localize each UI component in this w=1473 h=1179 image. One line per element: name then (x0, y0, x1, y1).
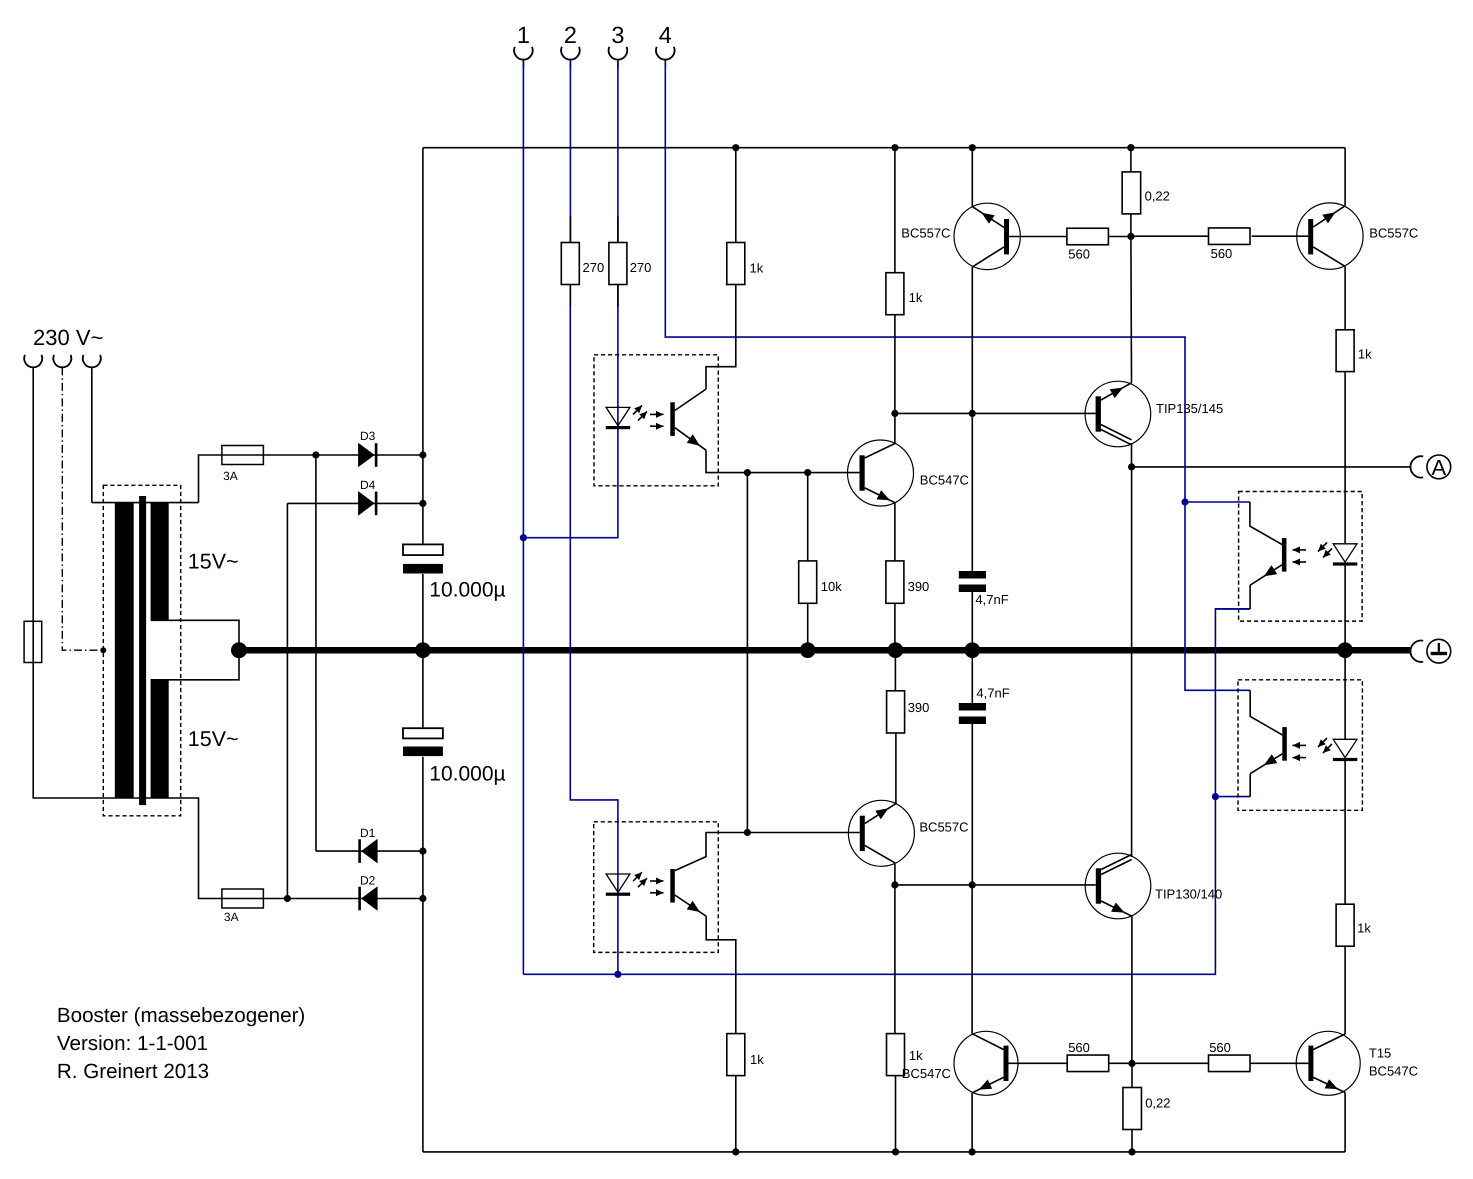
svg-text:BC547C: BC547C (902, 1066, 951, 1081)
svg-text:Version: 1-1-001: Version: 1-1-001 (57, 1032, 208, 1055)
svg-text:T15: T15 (1369, 1045, 1391, 1060)
svg-text:TIP130/140: TIP130/140 (1155, 887, 1222, 902)
svg-text:10.000µ: 10.000µ (429, 579, 505, 602)
svg-text:BC557C: BC557C (901, 225, 950, 240)
svg-text:D3: D3 (360, 429, 376, 443)
svg-text:10.000µ: 10.000µ (429, 762, 505, 785)
svg-text:270: 270 (630, 260, 652, 275)
svg-text:3: 3 (611, 22, 624, 48)
svg-text:390: 390 (908, 700, 930, 715)
svg-text:0,22: 0,22 (1145, 188, 1170, 203)
svg-text:D2: D2 (360, 874, 376, 888)
svg-text:BC547C: BC547C (1369, 1063, 1418, 1078)
svg-text:D1: D1 (360, 826, 376, 840)
svg-text:390: 390 (908, 579, 930, 594)
svg-text:1: 1 (517, 22, 530, 48)
svg-text:1k: 1k (1358, 347, 1372, 362)
svg-text:4: 4 (659, 22, 672, 48)
svg-text:0,22: 0,22 (1145, 1096, 1170, 1111)
svg-text:230 V~: 230 V~ (33, 325, 103, 350)
svg-text:2: 2 (564, 22, 577, 48)
svg-text:A: A (1431, 455, 1446, 480)
svg-text:3A: 3A (224, 910, 239, 924)
svg-text:Booster (massebezogener): Booster (massebezogener) (57, 1004, 305, 1027)
svg-text:10k: 10k (821, 579, 842, 594)
svg-text:BC557C: BC557C (1369, 225, 1418, 240)
svg-text:560: 560 (1068, 1040, 1090, 1055)
svg-text:4,7nF: 4,7nF (976, 686, 1009, 701)
svg-text:1k: 1k (1357, 921, 1371, 936)
svg-text:270: 270 (583, 260, 605, 275)
svg-text:15V~: 15V~ (188, 550, 239, 574)
svg-text:15V~: 15V~ (188, 727, 239, 751)
svg-text:1k: 1k (750, 1052, 764, 1067)
svg-text:1k: 1k (909, 290, 923, 305)
svg-text:560: 560 (1068, 246, 1090, 261)
svg-text:1k: 1k (909, 1048, 923, 1063)
svg-text:3A: 3A (223, 469, 238, 483)
svg-text:1k: 1k (750, 261, 764, 276)
svg-text:BC557C: BC557C (919, 820, 968, 835)
svg-text:R. Greinert 2013: R. Greinert 2013 (57, 1060, 209, 1083)
svg-text:TIP135/145: TIP135/145 (1156, 401, 1223, 416)
svg-text:BC547C: BC547C (920, 472, 969, 487)
svg-text:560: 560 (1209, 1040, 1231, 1055)
svg-text:4,7nF: 4,7nF (975, 592, 1008, 607)
svg-text:D4: D4 (360, 478, 376, 492)
svg-text:560: 560 (1211, 246, 1233, 261)
